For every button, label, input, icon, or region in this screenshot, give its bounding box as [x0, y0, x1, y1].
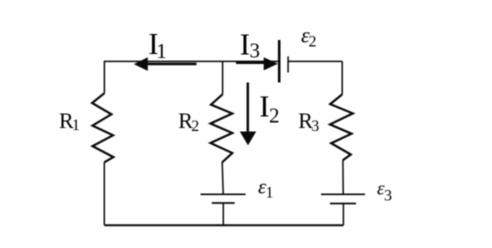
svg-text:2: 2 — [191, 118, 199, 135]
battery e2 long plate (vertical bar on top wire) — [278, 40, 281, 83]
svg-text:3: 3 — [250, 39, 261, 63]
svg-text:3: 3 — [384, 187, 392, 204]
svg-text:1: 1 — [156, 39, 167, 63]
wire: right branch between R3 and battery e3 — [342, 160, 344, 194]
current arrow I2 (pointing down) — [247, 83, 250, 133]
wire: right branch upper segment — [341, 61, 343, 94]
resistor R1 — [92, 93, 113, 162]
current arrow I1 (pointing left) — [147, 63, 197, 66]
battery e1 short plate — [212, 202, 235, 204]
wire: top wire left segment (from node A to battery e2) — [104, 60, 278, 62]
wire: middle branch upper segment — [222, 61, 224, 94]
battery e3 short plate — [330, 203, 356, 205]
battery e3 long plate — [321, 193, 365, 195]
resistor R3 — [330, 94, 353, 160]
wire: middle branch below battery e1 — [222, 203, 224, 225]
wire: top wire right segment (battery e2 to top-right corner) — [288, 60, 342, 62]
wire: right branch below battery e3 — [342, 204, 344, 226]
svg-text:1: 1 — [266, 185, 274, 202]
svg-text:3: 3 — [311, 118, 319, 135]
wire: bottom wire — [104, 224, 343, 226]
svg-text:2: 2 — [269, 103, 280, 127]
wire: left branch lower segment — [103, 162, 105, 225]
resistor R2 — [211, 94, 233, 162]
battery e2 short plate — [287, 56, 289, 72]
wire: left branch upper segment — [103, 61, 105, 93]
svg-text:2: 2 — [309, 34, 317, 51]
current arrow I3 (pointing right) — [236, 61, 265, 64]
battery e1 long plate — [201, 193, 246, 195]
svg-text:1: 1 — [72, 117, 80, 134]
wire: middle branch between R2 and battery e1 — [222, 163, 223, 195]
